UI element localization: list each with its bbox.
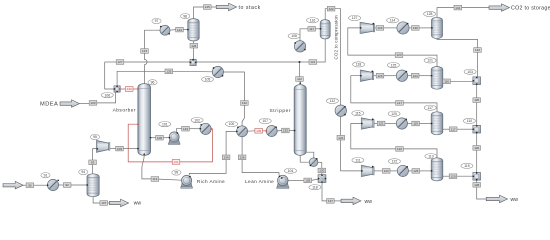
svg-text:112: 112: [330, 99, 336, 103]
svg-text:130: 130: [413, 26, 418, 30]
svg-text:Rich Amine: Rich Amine: [197, 179, 225, 184]
svg-text:123: 123: [142, 49, 147, 53]
svg-text:90: 90: [28, 183, 32, 187]
svg-text:107: 107: [262, 119, 268, 123]
svg-text:128: 128: [305, 179, 310, 183]
svg-text:91: 91: [44, 173, 48, 177]
svg-text:103: 103: [90, 101, 95, 105]
svg-text:CO2 to storage: CO2 to storage: [511, 5, 550, 11]
svg-text:111: 111: [355, 158, 360, 162]
svg-text:109: 109: [117, 147, 122, 151]
svg-text:124: 124: [338, 136, 343, 140]
svg-text:98: 98: [183, 14, 187, 18]
svg-text:MDEA: MDEA: [40, 102, 58, 108]
svg-text:126: 126: [474, 146, 479, 150]
svg-text:118: 118: [356, 63, 362, 67]
svg-text:117: 117: [309, 27, 314, 31]
svg-text:112: 112: [297, 77, 302, 81]
svg-text:108: 108: [291, 34, 297, 38]
svg-text:101: 101: [162, 122, 168, 126]
svg-text:ww: ww: [134, 201, 142, 207]
svg-text:115: 115: [355, 111, 361, 115]
svg-text:125: 125: [413, 169, 418, 173]
svg-text:117: 117: [427, 106, 433, 110]
svg-text:121: 121: [379, 122, 384, 126]
svg-text:128: 128: [427, 12, 433, 16]
svg-text:94: 94: [81, 170, 85, 174]
svg-text:121: 121: [310, 60, 315, 64]
svg-text:132: 132: [475, 48, 480, 52]
svg-text:CO2 to compression: CO2 to compression: [334, 15, 339, 60]
svg-text:123: 123: [396, 53, 401, 57]
svg-text:100: 100: [229, 122, 235, 126]
svg-text:113: 113: [428, 154, 434, 158]
svg-text:125: 125: [391, 63, 397, 67]
svg-text:92: 92: [66, 183, 70, 187]
svg-text:ww: ww: [365, 199, 373, 205]
svg-text:Stripper: Stripper: [269, 108, 291, 114]
svg-text:to stack: to stack: [239, 5, 261, 11]
svg-text:127: 127: [117, 60, 122, 64]
svg-text:122: 122: [392, 160, 398, 164]
svg-text:117: 117: [451, 127, 456, 131]
svg-text:110: 110: [467, 119, 473, 123]
svg-text:134: 134: [224, 156, 229, 160]
svg-text:124: 124: [177, 28, 182, 32]
svg-text:127: 127: [397, 101, 402, 105]
svg-text:95: 95: [93, 135, 97, 139]
svg-text:125: 125: [474, 98, 479, 102]
svg-text:130: 130: [127, 87, 132, 91]
svg-text:126: 126: [397, 147, 402, 151]
svg-text:120: 120: [319, 169, 324, 173]
svg-text:116: 116: [444, 80, 449, 84]
svg-text:136: 136: [240, 156, 245, 160]
svg-text:119: 119: [464, 164, 470, 168]
svg-text:Lean Amine: Lean Amine: [245, 179, 274, 184]
svg-text:129: 129: [377, 26, 382, 30]
svg-text:122: 122: [329, 7, 334, 11]
svg-text:125: 125: [205, 5, 210, 9]
svg-text:129: 129: [166, 70, 171, 74]
svg-text:120: 120: [450, 174, 455, 178]
svg-text:121: 121: [427, 59, 433, 63]
svg-text:137: 137: [328, 199, 333, 203]
svg-text:107: 107: [101, 201, 106, 205]
svg-text:128: 128: [474, 183, 479, 187]
svg-text:Absorber: Absorber: [113, 108, 136, 114]
svg-text:131: 131: [455, 6, 460, 10]
svg-text:133: 133: [183, 127, 188, 131]
svg-text:139: 139: [256, 129, 261, 133]
svg-text:93: 93: [91, 161, 95, 165]
svg-text:123: 123: [384, 169, 389, 173]
svg-text:135: 135: [283, 129, 288, 133]
svg-text:126: 126: [191, 44, 196, 48]
svg-text:127: 127: [352, 16, 358, 20]
svg-text:108: 108: [157, 136, 162, 140]
svg-text:103: 103: [467, 70, 473, 74]
svg-text:106: 106: [104, 93, 110, 97]
svg-text:ww: ww: [511, 197, 519, 203]
svg-text:97: 97: [155, 19, 159, 23]
svg-text:119: 119: [413, 122, 418, 126]
svg-text:120: 120: [391, 112, 397, 116]
svg-text:126: 126: [377, 74, 382, 78]
svg-text:113: 113: [153, 177, 158, 181]
svg-text:114: 114: [390, 19, 396, 23]
svg-text:132: 132: [242, 101, 247, 105]
svg-text:96: 96: [151, 81, 155, 85]
svg-text:104: 104: [288, 169, 294, 173]
svg-text:131: 131: [173, 160, 178, 164]
svg-text:105: 105: [205, 78, 211, 82]
svg-text:102: 102: [194, 118, 200, 122]
svg-text:116: 116: [310, 18, 316, 22]
svg-text:124: 124: [413, 74, 418, 78]
svg-text:118: 118: [312, 185, 318, 189]
svg-text:99: 99: [175, 171, 179, 175]
